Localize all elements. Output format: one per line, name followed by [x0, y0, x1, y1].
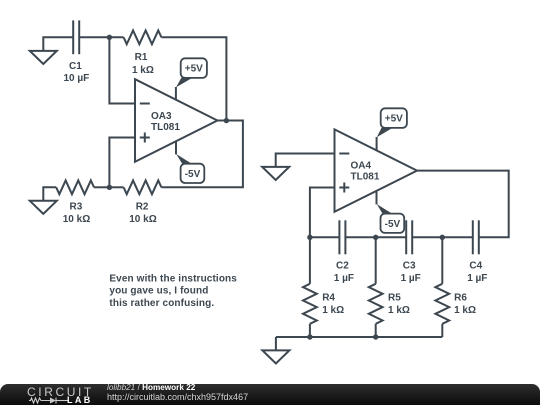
wire junction to R2 [109, 186, 123, 188]
capacitor C1 [73, 20, 79, 54]
wire C3 to C4 (node C) [412, 236, 473, 238]
R4 value label [322, 293, 344, 317]
logo schematic squiggle (resistor + diode) [29, 396, 69, 405]
node dot C (C3 / C4 / R6) [440, 235, 445, 240]
svg-text:10 kΩ: 10 kΩ [63, 214, 90, 225]
CircuitLab logo wordmark [27, 386, 94, 398]
svg-text:1 µF: 1 µF [401, 273, 421, 284]
svg-text:R3: R3 [70, 201, 83, 212]
R1 value label [132, 52, 154, 76]
resistor R5 [369, 237, 383, 337]
ground (bottom rail) [262, 337, 289, 364]
wire bottom rail [276, 336, 442, 338]
wire OA4 output to C4 [417, 171, 509, 238]
svg-text:1 kΩ: 1 kΩ [388, 305, 410, 316]
wire C2 to C3 (node B) [345, 236, 406, 238]
svg-text:TL081: TL081 [151, 122, 180, 133]
resistor R1 [124, 30, 162, 44]
svg-text:R1: R1 [135, 52, 148, 63]
OA3 name label [151, 111, 180, 133]
op-amp U OA4 [335, 129, 418, 211]
-5V supply flag (OA3 V-) [176, 141, 204, 183]
wire OA3 noninverting input [109, 138, 135, 188]
svg-text:1 µF: 1 µF [467, 273, 487, 284]
capacitor C4 [473, 220, 479, 254]
svg-text:you gave us, I found: you gave us, I found [109, 286, 208, 297]
svg-text:R2: R2 [136, 201, 149, 212]
C4 value label [467, 261, 487, 284]
svg-text:OA4: OA4 [351, 161, 372, 172]
capacitor C3 [406, 220, 412, 254]
svg-text:-5V: -5V [185, 169, 201, 180]
footer url line [107, 393, 248, 402]
C1 value label [64, 61, 90, 84]
node dot (R4 bottom) [307, 334, 312, 339]
capacitor C2 [339, 220, 345, 254]
resistor R3 [56, 180, 94, 194]
svg-text:R6: R6 [454, 293, 467, 304]
wire C1 to R1 [79, 36, 123, 38]
svg-text:10 µF: 10 µF [64, 73, 90, 84]
-5V supply flag (OA4 V-) [377, 191, 405, 233]
svg-text:R4: R4 [322, 293, 335, 304]
node dot at OA3 output [224, 118, 229, 123]
svg-text:C3: C3 [403, 261, 416, 272]
svg-text:-5V: -5V [385, 219, 401, 230]
LAB logo text [67, 396, 93, 405]
C3 value label [401, 261, 421, 284]
C2 value label [334, 261, 354, 284]
svg-text:C4: C4 [469, 261, 482, 272]
ground (top-left, C1 left terminal) [30, 37, 73, 64]
node junction (C1 / R1 / OA3 inverting) [107, 35, 112, 40]
resistor R6 [435, 237, 449, 337]
wire junction to OA3 inverting input [109, 37, 135, 103]
node junction (R3 / R2 / OA3 noninverting) [107, 185, 112, 190]
svg-text:1 µF: 1 µF [334, 273, 354, 284]
wire OA3 output feedback loop to R2 [161, 121, 243, 188]
resistor R4 [303, 237, 317, 337]
svg-text:R5: R5 [388, 293, 401, 304]
ground (OA4 inverting input) [262, 167, 289, 180]
ground (bottom-left, R3 left terminal) [30, 187, 57, 214]
op-amp U OA3 [135, 79, 217, 162]
node dot A (C2 / R4 / OA4 +) [307, 235, 312, 240]
footer bar [0, 384, 540, 405]
svg-text:1 kΩ: 1 kΩ [322, 305, 344, 316]
svg-text:+5V: +5V [185, 64, 203, 75]
annotation note text [109, 273, 237, 309]
wire R1 to output node [161, 37, 226, 120]
wire ladder node A to C2 [310, 236, 340, 238]
R2 value label [129, 201, 156, 225]
OA4 name label [351, 161, 380, 183]
svg-text:10 kΩ: 10 kΩ [129, 214, 156, 225]
wire OA4 inverting input to ground [276, 154, 335, 167]
svg-text:C2: C2 [336, 261, 349, 272]
wire R3 to junction [94, 186, 109, 188]
svg-text:C1: C1 [69, 61, 82, 72]
svg-text:1 kΩ: 1 kΩ [454, 305, 476, 316]
node dot (R5 bottom) [373, 334, 378, 339]
wire OA4 noninverting input down to RC ladder [310, 188, 335, 238]
svg-text:TL081: TL081 [351, 172, 380, 183]
R5 value label [388, 293, 410, 317]
resistor R2 [124, 180, 162, 194]
svg-text:OA3: OA3 [151, 111, 172, 122]
+5V supply flag (OA4 V+) [377, 108, 407, 150]
svg-text:+5V: +5V [385, 114, 403, 125]
R6 value label [454, 293, 476, 317]
footer title line [107, 384, 195, 392]
svg-text:1 kΩ: 1 kΩ [132, 65, 154, 76]
svg-text:this rather confusing.: this rather confusing. [109, 298, 214, 309]
+5V supply flag (OA3 V+) [176, 58, 207, 100]
svg-text:Even with the instructions: Even with the instructions [109, 273, 237, 284]
node dot B (C2 / C3 / R5) [373, 235, 378, 240]
R3 value label [63, 201, 90, 225]
